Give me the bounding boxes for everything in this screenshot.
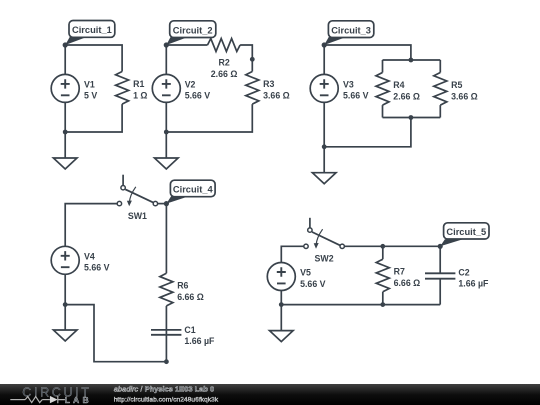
ground circuit2 — [155, 158, 179, 169]
svg-text:SW1: SW1 — [128, 211, 147, 221]
resistor R3 — [246, 72, 259, 105]
callout Circuit_3 — [322, 21, 374, 48]
wire SW1 top stub — [122, 175, 124, 186]
wire circuit3 bottom rail — [324, 102, 411, 146]
resistor R7 — [376, 259, 389, 292]
svg-text:R3: R3 — [263, 79, 274, 89]
callout Circuit_1 — [63, 21, 115, 48]
wire R7 bottom lead — [382, 292, 384, 305]
voltage source V4 — [51, 246, 79, 274]
callout Circuit_4 — [164, 180, 215, 206]
resistor R6 — [160, 273, 173, 306]
svg-text:2.66 Ω: 2.66 Ω — [393, 91, 420, 101]
voltage source V1 — [51, 74, 79, 102]
svg-text:V4: V4 — [84, 251, 95, 261]
wire circuit5 bottom rail — [281, 304, 440, 306]
svg-text:1 Ω: 1 Ω — [133, 90, 147, 100]
svg-text:6.66 Ω: 6.66 Ω — [394, 278, 421, 288]
svg-text:R2: R2 — [218, 58, 229, 68]
svg-text:Circuit_4: Circuit_4 — [173, 185, 214, 195]
svg-text:5.66 V: 5.66 V — [343, 91, 369, 101]
junction dot circuit1 bottom — [63, 130, 68, 135]
svg-text:R6: R6 — [177, 281, 188, 291]
junction dot circuit5 R7 top — [380, 244, 385, 249]
svg-text:V1: V1 — [84, 79, 95, 89]
svg-text:Circuit_1: Circuit_1 — [72, 25, 112, 35]
wire SW1 left — [65, 204, 117, 247]
switch SW2 — [304, 228, 345, 249]
capacitor C1 — [151, 330, 181, 335]
svg-text:Circuit_5: Circuit_5 — [446, 227, 486, 237]
junction dot circuit3 H bottom — [409, 115, 414, 120]
wire circuit3 H bottom bar — [383, 105, 441, 117]
callout Circuit_5 — [438, 223, 489, 249]
resistor R1 — [116, 72, 129, 105]
svg-text:http://circuitlab.com/cn248u6f: http://circuitlab.com/cn248u6fkqk3k — [114, 397, 219, 404]
wire circuit4 right vertical — [165, 204, 167, 274]
svg-text:3.66 Ω: 3.66 Ω — [263, 90, 290, 100]
resistor R5 — [434, 73, 447, 106]
svg-text:R5: R5 — [451, 80, 462, 90]
footer bar — [0, 384, 540, 405]
svg-text:C1: C1 — [184, 325, 195, 335]
svg-text:1.66 µF: 1.66 µF — [458, 279, 489, 289]
wire circuit5 ground stem — [280, 305, 282, 331]
wire circuit3 top rail — [324, 45, 411, 74]
wire circuit4 ground stem — [64, 305, 66, 330]
wire SW2 right to C2 — [344, 245, 440, 247]
ground circuit5 — [270, 331, 294, 342]
wire circuit2 ground stem — [165, 132, 167, 158]
junction dot circuit3 H top — [409, 58, 414, 63]
svg-text:2.66 Ω: 2.66 Ω — [211, 69, 238, 79]
svg-text:SW2: SW2 — [315, 254, 334, 264]
wire R7 top lead — [382, 246, 384, 259]
wire V5 bottom stub — [280, 291, 282, 305]
wire R6 to bottom — [165, 306, 167, 362]
svg-text:6.66 Ω: 6.66 Ω — [177, 292, 204, 302]
svg-text:Circuit_3: Circuit_3 — [331, 25, 371, 35]
svg-text:R7: R7 — [394, 267, 405, 277]
resistor R2 — [208, 39, 241, 52]
junction dot circuit4 V4 bottom — [63, 302, 68, 307]
wire SW1 right — [158, 203, 167, 205]
svg-text:5 V: 5 V — [84, 91, 97, 101]
wire V5 top — [281, 246, 304, 262]
wire SW2 top stub — [309, 218, 311, 228]
svg-text:5.66 V: 5.66 V — [185, 91, 211, 101]
callout Circuit_2 — [164, 21, 216, 48]
capacitor C2 — [425, 246, 455, 304]
svg-text:V3: V3 — [343, 79, 354, 89]
wire circuit3 H top bar — [383, 60, 441, 73]
ground circuit4 — [53, 330, 77, 341]
wire V4 bottom stub — [64, 274, 66, 304]
svg-text:V5: V5 — [300, 268, 311, 278]
voltage source V2 — [152, 74, 180, 102]
ground circuit3 — [312, 173, 336, 184]
wire circuit2 right top — [240, 45, 252, 72]
svg-text:1.66 µF: 1.66 µF — [184, 336, 215, 346]
voltage source V3 — [310, 74, 338, 102]
svg-text:R1: R1 — [133, 79, 144, 89]
svg-text:Circuit_2: Circuit_2 — [173, 25, 213, 35]
svg-text:5.66 V: 5.66 V — [300, 279, 326, 289]
svg-text:5.66 V: 5.66 V — [84, 263, 110, 273]
wire circuit1 ground stem — [64, 132, 66, 158]
svg-text:LAB: LAB — [65, 395, 92, 405]
svg-text:V2: V2 — [185, 79, 196, 89]
wire circuit2 top rail — [166, 45, 207, 74]
junction dot circuit5 R7 bottom — [380, 302, 385, 307]
junction dot circuit2 bottom — [164, 130, 169, 135]
wire circuit1 top rail — [65, 45, 122, 74]
svg-text:C2: C2 — [458, 267, 469, 277]
wire circuit2 bottom rail — [166, 102, 252, 132]
svg-text:R4: R4 — [393, 80, 404, 90]
wire circuit4 bottom — [65, 305, 166, 362]
junction dot circuit3 bottom — [322, 144, 327, 149]
resistor R4 — [376, 73, 389, 106]
ground circuit1 — [53, 158, 77, 169]
junction dot circuit5 V5 bottom — [279, 302, 284, 307]
wire circuit1 bottom rail — [65, 102, 122, 132]
wire circuit3 ground stem — [323, 147, 325, 173]
switch SW1 — [117, 186, 157, 207]
voltage source V5 — [267, 263, 295, 291]
logo squiggle resistor diode — [10, 396, 65, 403]
junction dot circuit4 C1 bottom — [164, 359, 169, 364]
svg-text:abadirc / Physics 1E03 Lab 0: abadirc / Physics 1E03 Lab 0 — [114, 385, 215, 394]
junction dot circuit2 right — [250, 57, 255, 62]
svg-text:3.66 Ω: 3.66 Ω — [451, 91, 478, 101]
